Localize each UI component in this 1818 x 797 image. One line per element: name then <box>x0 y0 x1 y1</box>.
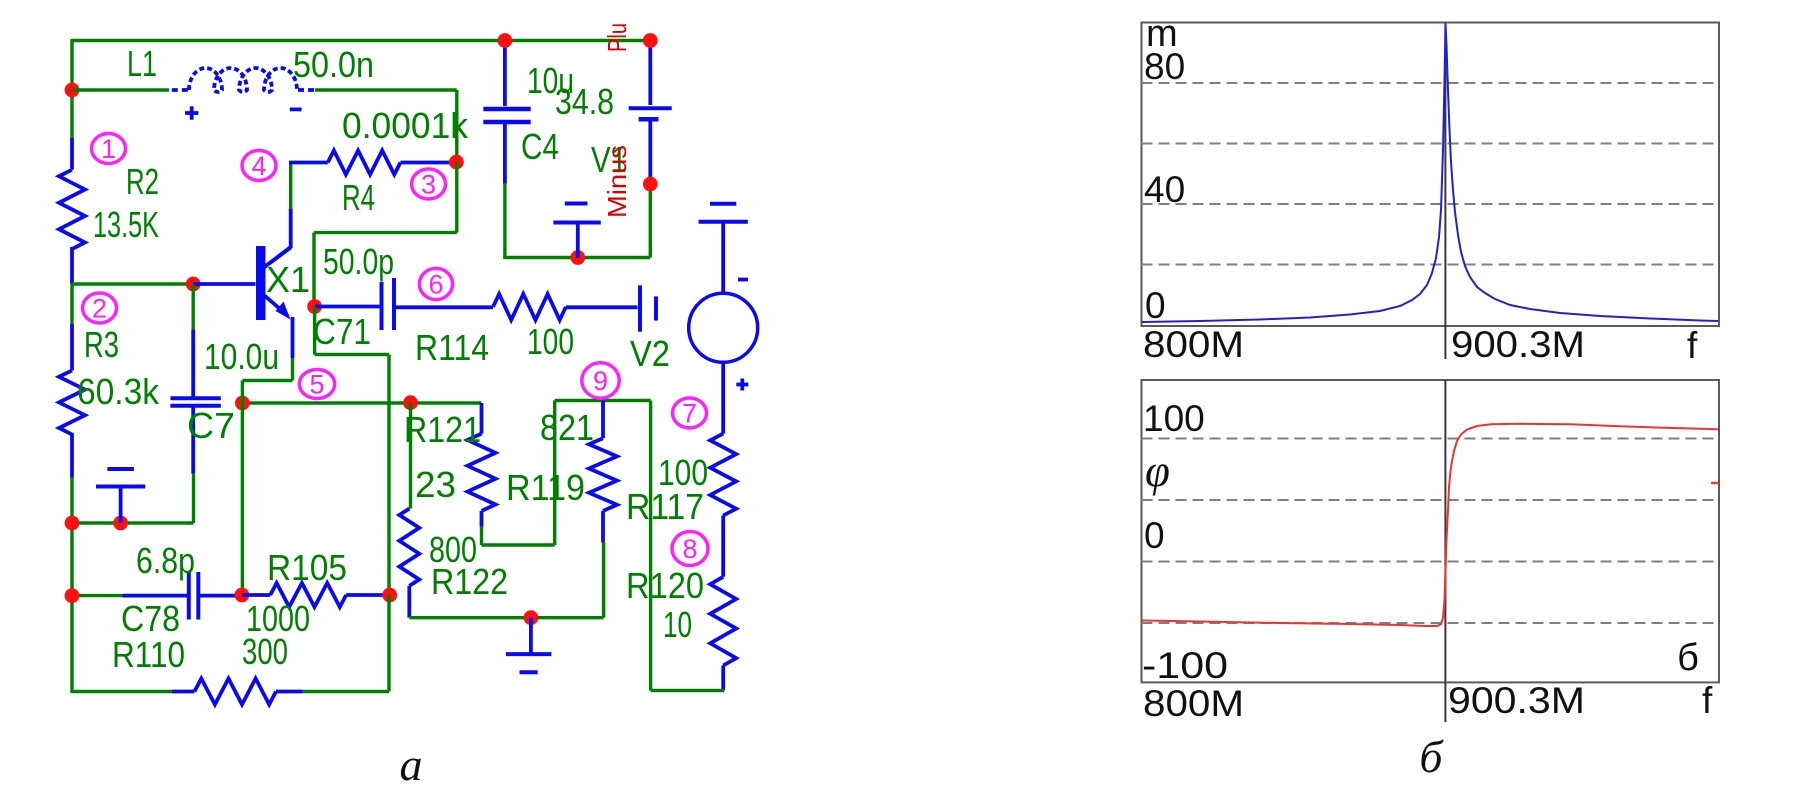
svg-text:C4: C4 <box>521 126 559 167</box>
net label Minus <box>602 145 632 218</box>
chart 1 y tick 0 <box>1145 285 1166 326</box>
value label 300 <box>242 631 288 672</box>
junction ground bottom <box>524 610 539 625</box>
lead V2 to R117 <box>721 362 725 433</box>
ground near V2 <box>699 204 748 294</box>
wire ground R3 <box>72 521 194 524</box>
chart 2 x tick 800M <box>1143 683 1244 724</box>
wire left rail <box>70 39 73 693</box>
svg-text:50.0p: 50.0p <box>323 241 394 282</box>
svg-text:C7: C7 <box>187 405 235 446</box>
node 2 <box>83 293 117 324</box>
chart 2 marker tick right <box>1711 482 1719 485</box>
svg-text:L1: L1 <box>127 43 157 84</box>
capacitor C4 <box>483 109 530 184</box>
wire C4 bottom <box>505 183 650 259</box>
chart 2 label b <box>1677 637 1699 679</box>
svg-text:R105: R105 <box>267 547 347 588</box>
chart 1 x tick 800M <box>1143 324 1244 365</box>
svg-text:R122: R122 <box>431 561 508 602</box>
svg-text:7: 7 <box>682 399 697 429</box>
resistor R4 <box>328 151 401 175</box>
junction base / C7 <box>186 277 201 292</box>
label R121 <box>404 409 481 450</box>
svg-text:a: a <box>400 739 423 790</box>
svg-text:3: 3 <box>421 170 436 200</box>
svg-text:f: f <box>1702 680 1713 721</box>
svg-text:300: 300 <box>242 631 288 672</box>
junction left rail / inductor wire <box>65 83 80 98</box>
ground near C4 <box>553 204 600 259</box>
wire collector <box>265 163 291 268</box>
label R117 <box>626 486 704 527</box>
wire R120 bottom loop <box>651 401 725 691</box>
chart 2 phase curve <box>1142 424 1718 626</box>
junction C4 ground <box>570 250 585 265</box>
junction left rail ground wire <box>65 516 80 531</box>
svg-text:9: 9 <box>593 366 608 396</box>
svg-text:f: f <box>1687 325 1698 366</box>
junction R105 right <box>382 588 397 603</box>
svg-text:V2: V2 <box>630 333 670 374</box>
node 8 <box>672 532 708 566</box>
resistor R119 <box>589 401 617 543</box>
capacitor C78 <box>123 572 239 620</box>
chart 2 marker line 900.3M <box>1444 380 1446 722</box>
capacitor C7 <box>170 284 220 523</box>
chart 2 y label phi <box>1145 446 1170 496</box>
svg-text:R119: R119 <box>506 467 585 508</box>
resistor R117 <box>710 434 736 516</box>
junction top rail right <box>643 33 658 48</box>
battery V2 plates <box>640 285 656 331</box>
wire C71 bottom loop <box>315 307 389 597</box>
junction left rail C78 wire <box>65 588 80 603</box>
label R110 <box>112 634 185 675</box>
chart 1 magnitude curve <box>1142 24 1718 322</box>
battery V1 <box>629 42 672 183</box>
caption b <box>1419 731 1444 782</box>
junction V1 bottom <box>643 177 658 192</box>
svg-text:50.0n: 50.0n <box>293 44 374 85</box>
wire inductor left <box>72 88 169 91</box>
chart 1 gridlines <box>1142 83 1720 265</box>
value label 821 <box>540 407 594 448</box>
label C78 <box>121 598 180 639</box>
resistor R105 <box>242 583 390 607</box>
svg-text:б: б <box>1677 637 1699 679</box>
svg-text:Plu: Plu <box>602 23 632 52</box>
chart 2 frame <box>1142 380 1720 682</box>
label V1 <box>591 139 627 180</box>
node 5 <box>299 370 334 400</box>
wire R119 bottom <box>602 542 605 618</box>
node 6 <box>419 268 452 299</box>
value label 100 of R114 <box>527 321 574 362</box>
svg-text:R121: R121 <box>404 409 481 450</box>
svg-text:Minus: Minus <box>602 145 632 218</box>
svg-text:R3: R3 <box>84 324 119 365</box>
node 4 <box>242 151 276 182</box>
lead R4 left <box>289 161 328 165</box>
wire R121 bottom loop to node9 <box>482 401 555 546</box>
chart 2 y tick -100 <box>1142 645 1228 686</box>
svg-text:34.8: 34.8 <box>555 81 614 122</box>
wire node 5 horizontal <box>242 401 481 404</box>
ground near R3 <box>96 469 145 523</box>
value label 50.0p <box>323 241 394 282</box>
label R2 <box>126 161 159 202</box>
label C4 <box>521 126 559 167</box>
label V2 <box>630 333 670 374</box>
lead R4 right <box>400 161 455 165</box>
junction C4 top <box>498 33 513 48</box>
wire node5 down to C78 <box>241 403 244 596</box>
value label 10u <box>527 60 574 101</box>
lead R114 left <box>425 305 493 309</box>
lead R114 right <box>566 305 638 309</box>
svg-text:13.5K: 13.5K <box>93 204 159 245</box>
svg-text:800M: 800M <box>1143 683 1244 724</box>
value label 10.0u <box>204 336 279 377</box>
svg-text:23: 23 <box>415 464 456 505</box>
value label 10 <box>663 604 692 645</box>
label R119 <box>506 467 585 508</box>
wire node3 to C71 top <box>314 162 457 307</box>
svg-text:4: 4 <box>251 151 266 181</box>
label V2 plus <box>736 379 748 391</box>
chart 1 y tick 40 <box>1144 169 1185 210</box>
resistor R120 <box>710 577 736 666</box>
svg-text:100: 100 <box>527 321 574 362</box>
svg-text:10: 10 <box>663 604 692 645</box>
chart 1 y label m <box>1146 13 1178 55</box>
svg-text:-100: -100 <box>1142 645 1228 686</box>
chart 1 x tick 900.3M <box>1451 324 1585 365</box>
net label Plu <box>602 23 632 52</box>
value label 800 <box>429 529 477 570</box>
caption a <box>400 739 423 790</box>
label C7 <box>187 405 235 446</box>
resistor R2 <box>59 138 85 249</box>
node 7 <box>673 398 707 429</box>
lead R120 bottom <box>721 666 725 691</box>
svg-text:R110: R110 <box>112 634 185 675</box>
chart 2 x tick 900.3M <box>1448 680 1585 721</box>
svg-text:φ: φ <box>1145 446 1170 496</box>
svg-text:6: 6 <box>428 270 443 300</box>
svg-text:100: 100 <box>1143 398 1205 439</box>
node 9 <box>582 363 619 398</box>
svg-text:900.3M: 900.3M <box>1451 324 1585 365</box>
svg-text:R2: R2 <box>126 161 159 202</box>
svg-text:40: 40 <box>1144 169 1185 210</box>
svg-text:C78: C78 <box>121 598 180 639</box>
junction R4 right / node 3 <box>449 155 464 170</box>
svg-text:X1: X1 <box>266 259 310 300</box>
node 1 <box>92 134 126 165</box>
svg-text:5: 5 <box>309 370 324 400</box>
svg-text:0: 0 <box>1144 515 1165 556</box>
svg-text:R117: R117 <box>626 486 704 527</box>
value label 13.5K <box>93 204 159 245</box>
inductor L1 <box>172 68 315 92</box>
junction node5 R122 <box>403 395 418 410</box>
ground bottom middle <box>506 618 552 673</box>
resistor R121 <box>468 403 496 527</box>
chart 2 gridlines <box>1142 439 1720 624</box>
svg-text:800M: 800M <box>1143 324 1244 365</box>
svg-text:б: б <box>1419 731 1444 782</box>
value label 6.8p <box>136 540 195 581</box>
junction node5 left <box>235 396 250 411</box>
svg-text:0: 0 <box>1145 285 1166 326</box>
value label 1000 <box>246 598 310 639</box>
label L1 minus <box>290 108 302 112</box>
svg-text:R120: R120 <box>626 565 704 606</box>
label R4 <box>342 177 375 218</box>
svg-text:821: 821 <box>540 407 594 448</box>
svg-text:900.3M: 900.3M <box>1448 680 1585 721</box>
value label 50.0n <box>293 44 374 85</box>
wire base <box>72 282 193 285</box>
lead base blue <box>193 282 255 286</box>
capacitor C71 <box>315 278 425 330</box>
label R114 <box>415 327 489 368</box>
svg-text:2: 2 <box>92 294 107 324</box>
svg-text:8: 8 <box>682 534 697 564</box>
wire top rail <box>72 39 650 42</box>
transistor X1 <box>256 246 293 358</box>
label R3 <box>84 324 119 365</box>
label R105 <box>267 547 347 588</box>
label R122 <box>431 561 508 602</box>
svg-text:6.8p: 6.8p <box>136 540 195 581</box>
svg-text:60.3k: 60.3k <box>77 371 160 412</box>
resistor R114 <box>493 294 566 320</box>
label C71 <box>313 311 371 352</box>
chart 2 y tick 0 <box>1144 515 1165 556</box>
junction C71 left <box>307 299 322 314</box>
wire bottom rail <box>72 595 389 692</box>
chart 1 x label f <box>1687 325 1698 366</box>
svg-text:1: 1 <box>101 134 116 164</box>
label L1 <box>127 43 157 84</box>
wire inductor right to R4 right node <box>315 90 457 163</box>
junction C78 R105 <box>235 588 250 603</box>
svg-text:0.0001k: 0.0001k <box>342 105 469 146</box>
svg-text:R4: R4 <box>342 177 375 218</box>
label L1 plus <box>185 106 198 119</box>
value label 100 of R117 <box>658 452 708 493</box>
lead R117 to R120 <box>721 516 725 577</box>
label R120 <box>626 565 704 606</box>
value label 34.8 <box>555 81 614 122</box>
svg-text:10.0u: 10.0u <box>204 336 279 377</box>
chart 2 y tick 100 <box>1143 398 1205 439</box>
wire ground rail bottom middle <box>409 616 603 619</box>
resistor R110 <box>172 679 303 705</box>
junction ground R3 stem <box>113 516 128 531</box>
label X1 <box>266 259 310 300</box>
capacitor C4 top lead <box>503 42 507 106</box>
chart 1 marker line 900.3M <box>1444 23 1446 360</box>
value label 0.0001k <box>342 105 469 146</box>
wire emitter to node5 <box>242 358 292 404</box>
wire C78 left <box>72 594 123 597</box>
resistor R122 <box>399 403 419 618</box>
chart 2 x label f <box>1702 680 1713 721</box>
wire node 9 <box>555 399 651 402</box>
value label 23 <box>415 464 456 505</box>
svg-text:80: 80 <box>1144 46 1185 87</box>
chart 1 y tick 80 <box>1144 46 1185 87</box>
node 3 <box>412 169 446 200</box>
svg-text:C71: C71 <box>313 311 371 352</box>
label V2 minus <box>738 278 748 282</box>
source V2 circle <box>689 293 758 362</box>
svg-text:R114: R114 <box>415 327 489 368</box>
value label 60.3k <box>77 371 160 412</box>
chart 1 frame <box>1142 23 1720 327</box>
resistor R3 <box>59 324 85 434</box>
